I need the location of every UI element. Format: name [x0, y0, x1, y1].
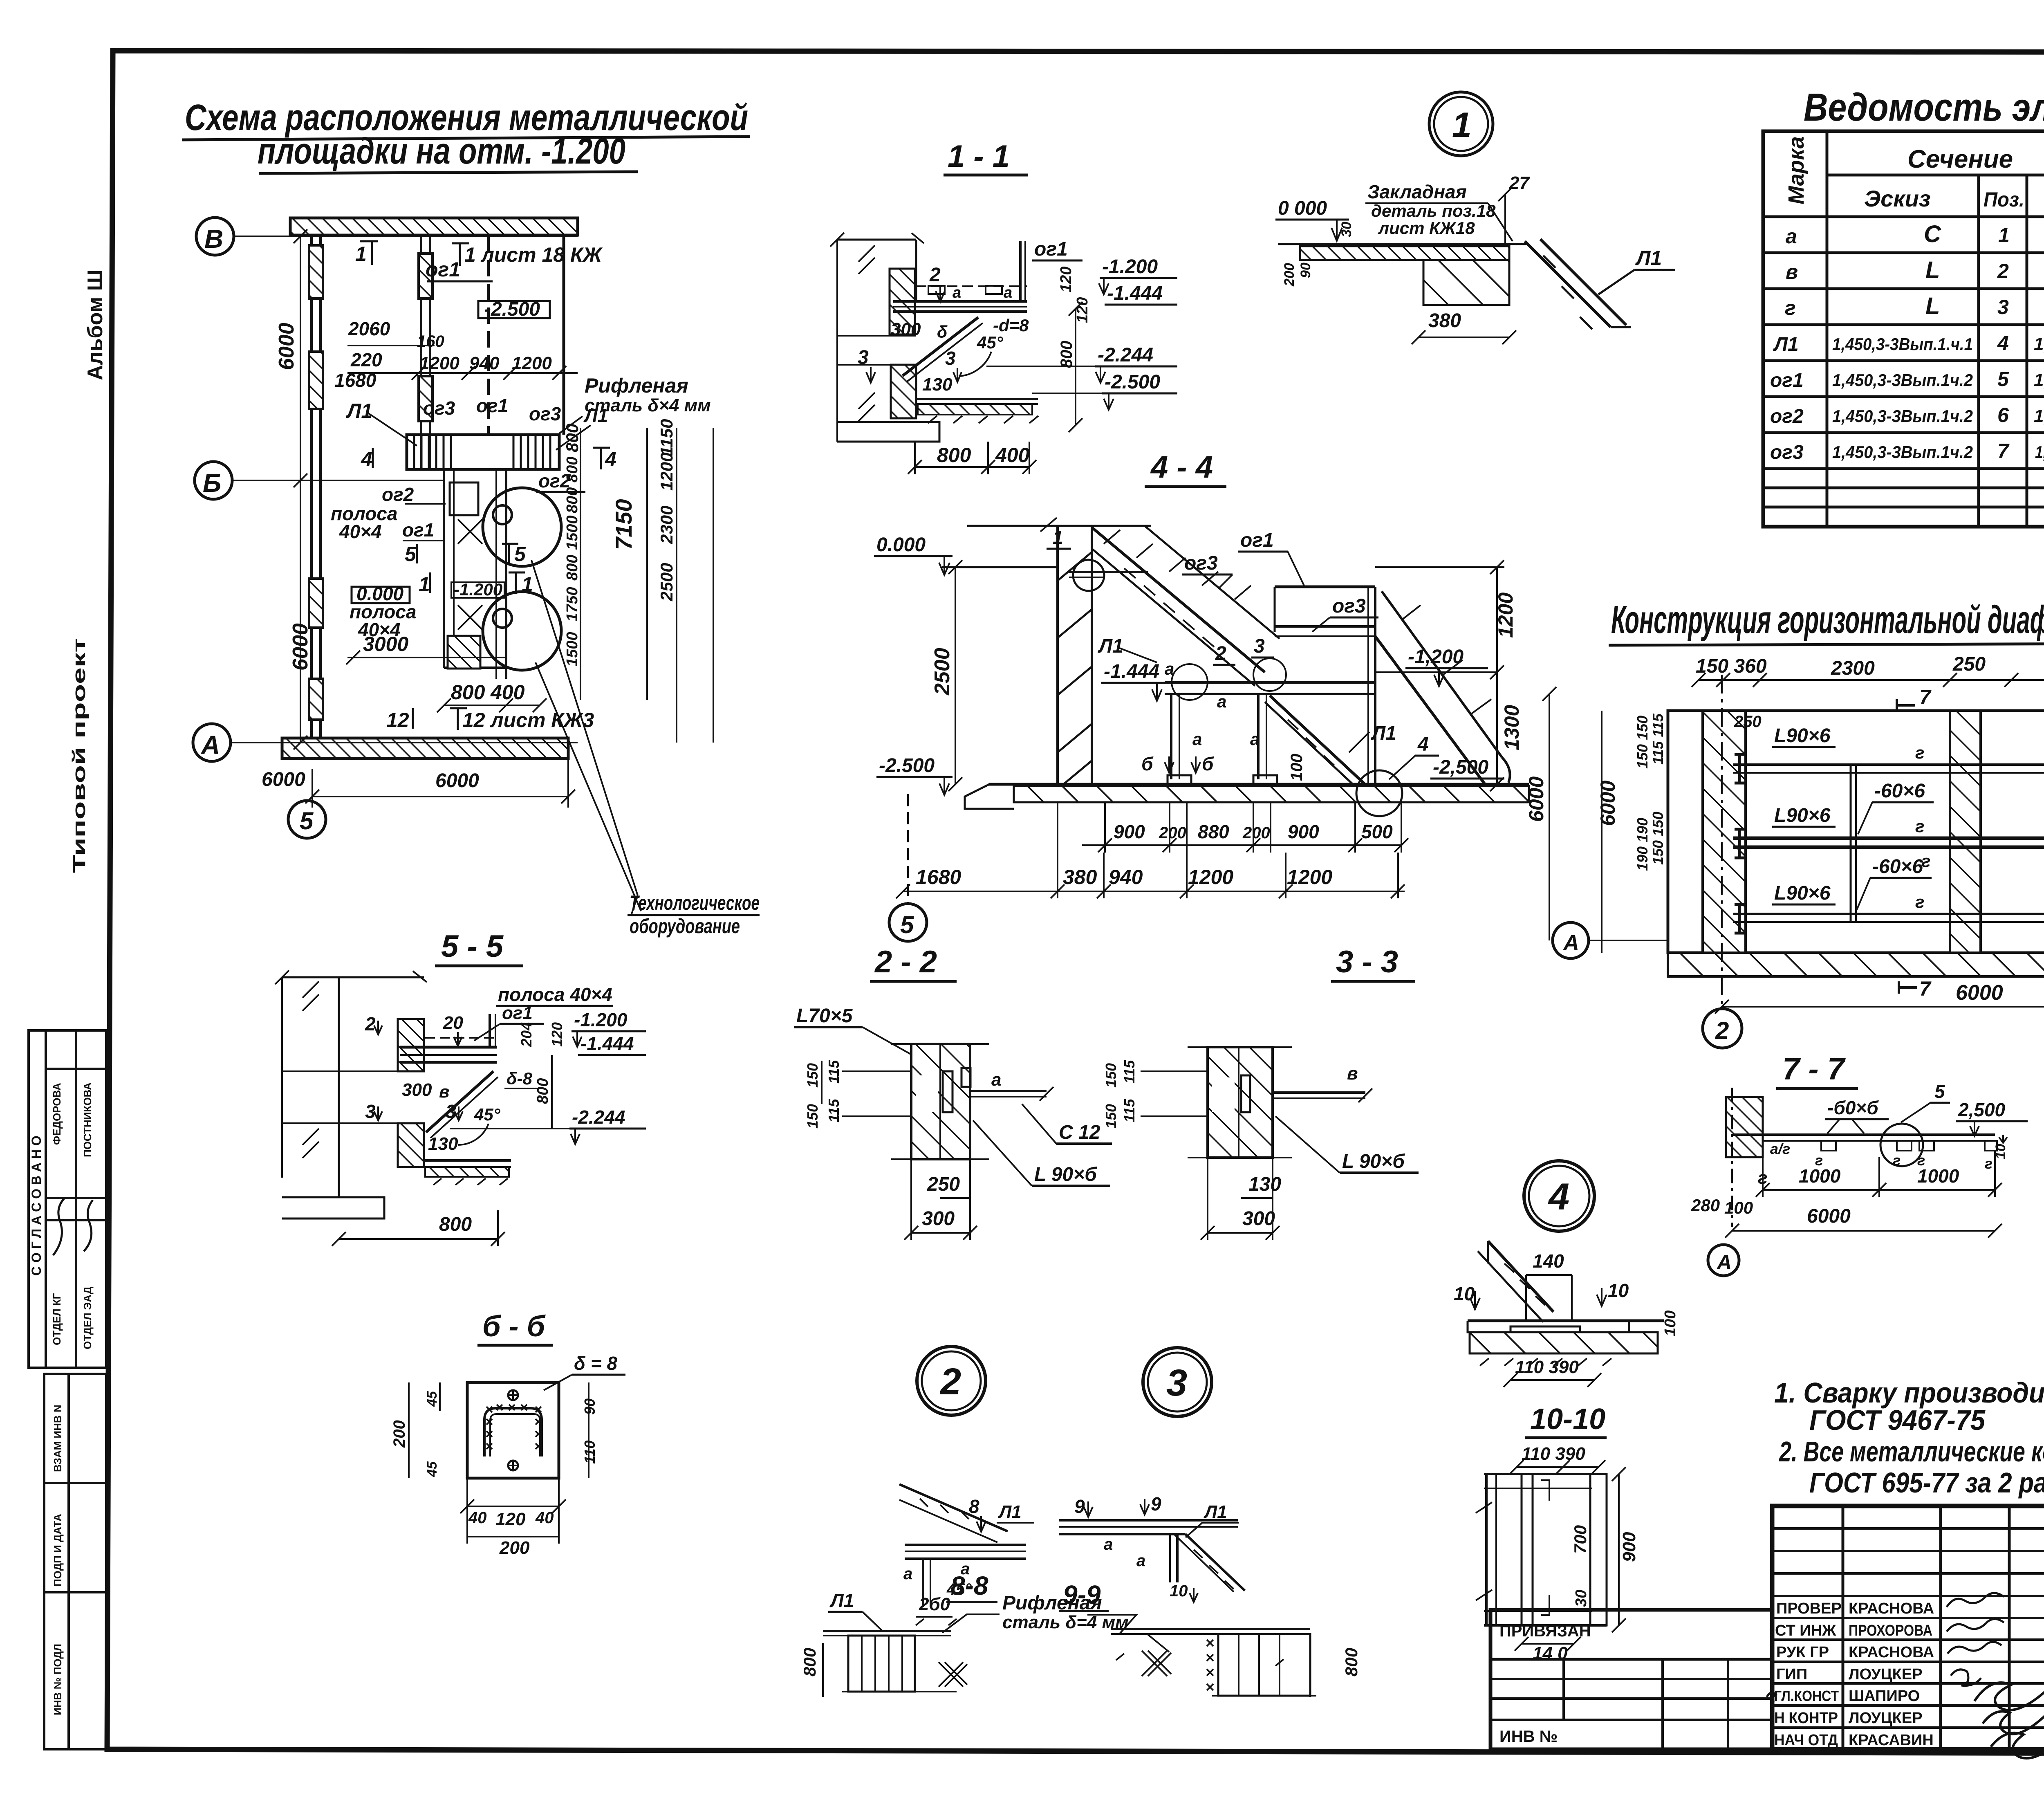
svg-text:КРАСНОВА: КРАСНОВА [1849, 1600, 1934, 1617]
plan bottom dim 6000 with axis 5 [262, 760, 575, 838]
svg-text:Ведомость элементов: Ведомость элементов [1804, 85, 2044, 129]
svg-text:120: 120 [1074, 297, 1091, 323]
svg-text:г: г [1915, 817, 1924, 836]
circled 1 [1429, 92, 1493, 156]
svg-text:45: 45 [424, 1461, 440, 1477]
svg-text:2: 2 [365, 1013, 376, 1035]
svg-text:-1.444: -1.444 [580, 1033, 634, 1054]
svg-text:6000: 6000 [262, 769, 305, 790]
svg-text:10: 10 [1608, 1280, 1629, 1301]
svg-text:3: 3 [858, 347, 869, 368]
svg-text:в: в [1786, 260, 1798, 283]
axis 5 circle [889, 904, 927, 941]
svg-text:δ-8: δ-8 [507, 1069, 533, 1088]
svg-text:280: 280 [1691, 1196, 1720, 1215]
svg-text:в: в [1347, 1064, 1358, 1084]
svg-text:ог1: ог1 [502, 1003, 533, 1023]
plan annotation texts [331, 241, 711, 732]
svg-text:940: 940 [469, 353, 500, 373]
svg-text:-2.500: -2.500 [484, 298, 540, 320]
svg-text:А: А [1562, 931, 1579, 955]
svg-text:4: 4 [1548, 1176, 1569, 1218]
row a [1786, 220, 2044, 253]
svg-text:-1,200: -1,200 [1408, 646, 1464, 668]
svg-text:8: 8 [969, 1496, 979, 1517]
svg-text:100: 100 [1288, 754, 1306, 781]
end post [489, 1014, 491, 1047]
axis circle B [196, 218, 234, 255]
svg-text:2500: 2500 [657, 563, 676, 601]
left dim line [281, 977, 283, 1178]
svg-text:12: 12 [386, 709, 409, 732]
left dim line [836, 240, 838, 442]
svg-text:а: а [1250, 729, 1260, 749]
svg-text:С 12: С 12 [1059, 1122, 1100, 1143]
svg-text:200: 200 [1159, 824, 1186, 842]
svg-text:200: 200 [1282, 263, 1297, 287]
svg-text:6000: 6000 [289, 623, 312, 671]
svg-text:1150: 1150 [657, 419, 676, 456]
column [1208, 1047, 1273, 1158]
svg-text:1: 1 [522, 573, 533, 596]
svg-text:100: 100 [1662, 1311, 1679, 1336]
svg-text:200: 200 [1242, 824, 1270, 842]
embedded channel [943, 1071, 953, 1112]
svg-text:12 лист КЖ3: 12 лист КЖ3 [462, 709, 594, 732]
signatures squiggles [1767, 1593, 2044, 1758]
svg-text:δ: δ [937, 322, 948, 341]
svg-text:6: 6 [1997, 404, 2009, 426]
svg-text:90: 90 [1298, 263, 1313, 278]
svg-text:в: в [439, 1082, 449, 1101]
svg-text:5: 5 [1934, 1081, 1945, 1102]
svg-text:1680: 1680 [334, 370, 377, 391]
svg-text:120: 120 [1058, 267, 1075, 292]
svg-text:940: 940 [1109, 866, 1143, 889]
wall left [1726, 1097, 1763, 1157]
svg-text:5: 5 [514, 543, 526, 566]
plate & floor [1468, 1320, 1664, 1322]
svg-text:г: г [1985, 1155, 1992, 1172]
svg-text:1: 1 [355, 242, 367, 265]
approval stamp (rotated) [29, 1030, 106, 1368]
svg-text:5 - 5: 5 - 5 [441, 929, 504, 964]
plan right dim chains [563, 419, 713, 743]
svg-text:1750: 1750 [564, 587, 581, 622]
svg-text:115: 115 [1121, 1099, 1138, 1122]
header texts [1784, 136, 2044, 218]
svg-text:4: 4 [361, 448, 372, 471]
svg-text:РУК ГР: РУК ГР [1776, 1644, 1829, 1661]
svg-text:а: а [1104, 1535, 1113, 1553]
svg-text:4: 4 [1417, 734, 1429, 755]
inner wall segment [420, 235, 422, 470]
row lines [1763, 251, 2044, 254]
left dim 2500 [955, 567, 956, 784]
svg-text:3: 3 [945, 348, 956, 369]
svg-text:30: 30 [1573, 1590, 1590, 1607]
svg-text:лист КЖ18: лист КЖ18 [1378, 218, 1475, 238]
foundation step [282, 1197, 384, 1219]
svg-text:Н КОНТР: Н КОНТР [1774, 1710, 1838, 1727]
svg-text:Конструкция горизонтальной д: Конструкция горизонтальной диафрагмы в т… [1611, 598, 2044, 642]
svg-text:L90×6: L90×6 [1774, 805, 1831, 826]
svg-text:4 - 4: 4 - 4 [1150, 450, 1213, 485]
plan top dims 2060/160/220/1200/940/1200/1680 [334, 318, 578, 391]
svg-text:полоса 40×4: полоса 40×4 [498, 984, 612, 1005]
svg-text:-2.500: -2.500 [879, 755, 935, 776]
svg-text:ЛОУЦКЕР: ЛОУЦКЕР [1849, 1666, 1923, 1683]
top wall hatched band [290, 218, 578, 235]
svg-text:45°: 45° [977, 333, 1004, 352]
stripe box right [1218, 1634, 1310, 1696]
svg-text:115: 115 [825, 1099, 842, 1122]
svg-text:L90×6: L90×6 [1774, 882, 1831, 904]
column [911, 1044, 970, 1159]
svg-text:а: а [953, 284, 961, 301]
svg-text:Л1: Л1 [346, 399, 372, 422]
svg-text:-б0×б: -б0×б [1827, 1097, 1879, 1118]
svg-text:1200: 1200 [512, 353, 552, 373]
plate [467, 1382, 559, 1478]
svg-text:30: 30 [1339, 222, 1354, 237]
svg-text:Л1: Л1 [998, 1502, 1022, 1522]
6000 vertical dim near diaphragm [1549, 694, 1550, 940]
MAIN TITLE [182, 97, 750, 173]
svg-text:б - б: б - б [482, 1310, 546, 1343]
svg-text:б: б [1202, 753, 1214, 774]
svg-text:160: 160 [417, 332, 444, 350]
svg-text:220: 220 [350, 349, 382, 370]
svg-text:300: 300 [891, 319, 921, 339]
svg-text:Поз.: Поз. [1983, 188, 2024, 211]
bottom wall hatched band [282, 738, 568, 759]
svg-text:НАЧ ОТД: НАЧ ОТД [1774, 1732, 1838, 1749]
svg-text:Сечение: Сечение [1907, 145, 2013, 173]
svg-text:ПРИВЯЗАН: ПРИВЯЗАН [1499, 1622, 1591, 1640]
svg-text:150: 150 [804, 1063, 821, 1088]
axis circles 2 and 3 [1703, 1009, 1742, 1048]
svg-text:3: 3 [1997, 296, 2009, 319]
svg-text:9: 9 [1074, 1496, 1085, 1517]
svg-text:ог1: ог1 [1034, 238, 1068, 260]
svg-text:-2,500: -2,500 [1433, 756, 1488, 778]
svg-text:а: а [991, 1070, 1001, 1090]
svg-text:800: 800 [937, 444, 971, 467]
svg-text:380: 380 [1063, 866, 1097, 889]
svg-text:1500: 1500 [564, 632, 581, 667]
svg-text:ог3: ог3 [1332, 595, 1366, 617]
svg-text:150: 150 [804, 1104, 821, 1129]
svg-text:115: 115 [1121, 1060, 1138, 1084]
svg-text:δ = 8: δ = 8 [574, 1353, 618, 1374]
svg-text:Типовой проект: Типовой проект [69, 638, 89, 873]
supporting wall [1423, 260, 1509, 305]
svg-text:0.000: 0.000 [876, 534, 926, 556]
svg-text:деталь поз.18: деталь поз.18 [1371, 201, 1496, 220]
svg-text:2: 2 [1215, 643, 1226, 664]
svg-text:ог1: ог1 [426, 258, 460, 281]
svg-text:150: 150 [1103, 1104, 1119, 1129]
svg-text:2: 2 [1997, 260, 2009, 283]
embedded plate hatched [1300, 246, 1509, 260]
svg-text:250: 250 [1734, 713, 1762, 731]
svg-text:1: 1 [1452, 105, 1472, 145]
svg-text:2500: 2500 [930, 648, 954, 696]
left dims [821, 1061, 823, 1104]
stripe box [848, 1636, 915, 1692]
top dim row [1692, 653, 2044, 687]
svg-text:Рифленая: Рифленая [1002, 1592, 1102, 1614]
svg-text:115: 115 [825, 1060, 842, 1084]
svg-text:800: 800 [564, 555, 581, 581]
svg-text:КРАСАВИН: КРАСАВИН [1849, 1732, 1934, 1749]
foundation step [837, 422, 939, 442]
svg-text:2300: 2300 [1831, 658, 1875, 679]
svg-text:27: 27 [1509, 173, 1530, 193]
svg-text:6000: 6000 [1596, 781, 1619, 826]
svg-text:г: г [1915, 743, 1924, 762]
beam end plates [1735, 754, 2044, 933]
svg-text:10-10: 10-10 [1530, 1403, 1605, 1436]
svg-text:Л1: Л1 [583, 405, 608, 426]
top slab line [1278, 243, 1528, 245]
svg-text:L90×6: L90×6 [1774, 725, 1831, 747]
svg-text:1200: 1200 [1287, 866, 1332, 889]
main rectangle [1668, 711, 2044, 953]
svg-text:190 190: 190 190 [1634, 818, 1651, 871]
svg-text:г: г [1915, 892, 1924, 911]
svg-text:1,450,3-3,1: 1,450,3-3,1 [2034, 334, 2044, 354]
svg-text:90: 90 [581, 1398, 598, 1415]
svg-text:130: 130 [1248, 1174, 1281, 1195]
svg-text:2 - 2: 2 - 2 [874, 945, 937, 979]
privyazan block [1490, 1610, 1772, 1749]
svg-text:-1.200: -1.200 [1102, 256, 1158, 278]
svg-text:1680: 1680 [916, 866, 961, 889]
svg-text:а: а [903, 1565, 912, 1583]
svg-text:7 - 7: 7 - 7 [1782, 1052, 1846, 1086]
signature table columns [1842, 1506, 1845, 1749]
svg-text:ог2: ог2 [1770, 406, 1804, 427]
svg-text:7150: 7150 [611, 499, 637, 550]
svg-text:800: 800 [800, 1648, 819, 1676]
svg-text:7: 7 [1919, 977, 1932, 1000]
svg-text:1,450,3-3Вып.1ч.2: 1,450,3-3Вып.1ч.2 [1832, 370, 1973, 390]
svg-text:300: 300 [922, 1208, 955, 1230]
plan right edge vertical [563, 235, 565, 435]
wall with hatch blocks [915, 240, 917, 301]
svg-text:1,450,3-3Вып.1ч.2: 1,450,3-3Вып.1ч.2 [1832, 442, 1973, 462]
svg-text:2,500: 2,500 [1958, 1099, 2006, 1120]
svg-text:СТ ИНЖ: СТ ИНЖ [1775, 1622, 1836, 1639]
svg-text:А: А [1716, 1251, 1732, 1274]
svg-text:а: а [1192, 729, 1202, 749]
svg-text:ог3: ог3 [1184, 552, 1218, 574]
svg-text:А: А [200, 730, 220, 760]
svg-text:а/г: а/г [1770, 1140, 1790, 1157]
svg-text:Эскиз: Эскиз [1864, 186, 1931, 211]
row og2 [1770, 404, 2044, 427]
svg-text:6000: 6000 [1525, 776, 1548, 822]
wall column hatch blocks on left wall [309, 245, 323, 298]
svg-text:ГЛ.КОНСТ: ГЛ.КОНСТ [1774, 1688, 1839, 1704]
diagonal brace [903, 317, 978, 376]
svg-text:250: 250 [927, 1174, 960, 1195]
svg-text:L 90×б: L 90×б [1034, 1164, 1097, 1185]
svg-text:Л1: Л1 [829, 1590, 854, 1611]
svg-text:ПРОВЕР: ПРОВЕР [1776, 1600, 1842, 1617]
svg-text:Л1: Л1 [1635, 247, 1662, 269]
top wall cut line [967, 525, 1151, 527]
svg-text:150 150: 150 150 [1634, 716, 1651, 769]
axis A circle left [1553, 922, 1589, 958]
post [922, 1559, 924, 1607]
circled 3 [1143, 1348, 1212, 1416]
deck at -1.444 [893, 300, 1027, 303]
g letters [1915, 743, 1930, 911]
svg-text:ГОСТ 9467-75: ГОСТ 9467-75 [1809, 1404, 1986, 1436]
svg-text:900: 900 [1288, 821, 1319, 842]
bottom dim row 2 [896, 802, 1405, 898]
svg-text:ФЕДОРОВА: ФЕДОРОВА [51, 1083, 63, 1145]
svg-text:Альбом Ш: Альбом Ш [83, 269, 107, 380]
svg-text:900: 900 [1619, 1532, 1639, 1562]
detail under circled 4 : stair base [1454, 1241, 1679, 1387]
svg-text:6000: 6000 [1807, 1205, 1851, 1227]
svg-text:140: 140 [1533, 1250, 1564, 1272]
row g [1785, 293, 2044, 319]
svg-text:1: 1 [1998, 224, 2010, 247]
x marks left of box [1207, 1640, 1213, 1690]
svg-text:ГОСТ 695-77 за 2 раза п: ГОСТ 695-77 за 2 раза по грунту ГФ- 020. [1809, 1467, 2044, 1499]
svg-text:L70×5: L70×5 [796, 1005, 853, 1027]
svg-text:г: г [1785, 296, 1796, 319]
svg-text:ог3: ог3 [1770, 442, 1804, 463]
svg-text:1000: 1000 [1917, 1165, 1959, 1187]
channel inside [484, 1408, 542, 1456]
left dims [1601, 711, 1602, 953]
right dims 1200/1300 [1496, 567, 1498, 784]
svg-text:3 - 3: 3 - 3 [1336, 945, 1398, 979]
svg-text:204: 204 [518, 1022, 535, 1047]
svg-text:3: 3 [1166, 1362, 1187, 1404]
svg-text:Закладная: Закладная [1367, 181, 1467, 202]
svg-text:300: 300 [1242, 1208, 1275, 1230]
plate [1733, 1133, 1995, 1136]
ladder stringer diagonal [1525, 241, 1611, 327]
svg-text:-60×6: -60×6 [1872, 856, 1923, 877]
svg-text:1,4503-3 1.4. 1.1.1.0-06;ОГп М: 1,4503-3 1.4. 1.1.1.0-06;ОГп М ЛХ45- 10,… [2035, 442, 2044, 462]
outer box [1763, 131, 2044, 527]
svg-text:1200: 1200 [1494, 592, 1517, 638]
svg-text:120: 120 [549, 1022, 565, 1047]
dims [408, 1382, 410, 1478]
rod [970, 1090, 1047, 1092]
svg-text:4: 4 [605, 448, 616, 471]
axis A circle [1708, 1245, 1739, 1276]
svg-text:ог1: ог1 [1770, 370, 1804, 391]
row og1 [1770, 368, 2044, 392]
svg-text:45: 45 [424, 1391, 440, 1407]
top line [282, 976, 424, 978]
svg-text:150 150: 150 150 [1650, 812, 1666, 865]
svg-text:ИНВ №: ИНВ № [1499, 1728, 1558, 1746]
svg-text:1200: 1200 [419, 353, 459, 373]
deck -1.444 [1165, 681, 1375, 684]
crosshatch mark [939, 1662, 967, 1687]
row L1 [1773, 332, 2044, 355]
svg-text:40×4: 40×4 [339, 521, 382, 542]
left wall strip [1703, 711, 1746, 953]
svg-text:Л1: Л1 [1773, 334, 1799, 355]
svg-text:а: а [1786, 225, 1797, 248]
svg-text:-2.244: -2.244 [1098, 344, 1153, 366]
svg-text:400: 400 [490, 681, 525, 704]
svg-text:6000: 6000 [1956, 981, 2003, 1005]
labels L90x6 [1774, 725, 1831, 904]
deck [905, 1544, 1026, 1546]
svg-text:-1.200: -1.200 [574, 1009, 628, 1030]
left margin album text [69, 269, 107, 873]
svg-text:С О Г Л А С О В А Н О: С О Г Л А С О В А Н О [29, 1136, 44, 1276]
svg-text:7: 7 [1919, 686, 1932, 709]
svg-text:110: 110 [581, 1441, 598, 1464]
svg-text:110 390: 110 390 [1522, 1444, 1585, 1464]
svg-text:1,450,3-3Вып.1.ч.1: 1,450,3-3Вып.1.ч.1 [1832, 334, 1973, 354]
svg-text:1 - 1: 1 - 1 [948, 139, 1010, 174]
svg-text:В: В [204, 224, 223, 254]
post [1176, 1534, 1179, 1582]
svg-text:5: 5 [405, 543, 417, 566]
svg-text:0 000: 0 000 [1278, 197, 1327, 219]
svg-text:880: 880 [1198, 821, 1229, 842]
og1 post [1019, 241, 1022, 301]
flight 2 with rail [1375, 636, 1486, 785]
svg-text:3000: 3000 [363, 633, 408, 655]
svg-text:ог2: ог2 [382, 484, 414, 505]
axis lines [233, 236, 578, 237]
svg-text:-1.200: -1.200 [454, 580, 502, 599]
upper right platform box [1275, 586, 1375, 588]
svg-text:7: 7 [1997, 440, 2010, 462]
svg-text:4: 4 [1997, 332, 2009, 355]
svg-text:2300: 2300 [657, 506, 676, 544]
dashed axis vertical [487, 236, 490, 435]
svg-text:Л1: Л1 [1371, 723, 1396, 744]
diagonal down-right [1186, 1534, 1245, 1591]
svg-text:500: 500 [1361, 821, 1393, 842]
svg-text:1,450,3-3Вып.1ч.2: 1,450,3-3Вып.1ч.2 [1832, 406, 1973, 426]
svg-text:L: L [1925, 293, 1940, 319]
svg-text:9: 9 [1151, 1493, 1161, 1515]
deck at -1.444 [400, 1046, 497, 1049]
crosshatch [1142, 1651, 1171, 1676]
svg-text:120: 120 [495, 1509, 526, 1529]
svg-text:-1.444: -1.444 [1107, 283, 1163, 304]
header split lines [1827, 174, 2044, 177]
svg-text:40: 40 [535, 1509, 554, 1527]
svg-text:1,450,3-3,1 5: 1,450,3-3,1 5 [2034, 370, 2044, 390]
svg-text:ог1: ог1 [402, 519, 434, 541]
svg-text:ИНВ № ПОДЛ: ИНВ № ПОДЛ [52, 1644, 64, 1715]
svg-text:40: 40 [468, 1509, 487, 1527]
svg-text:а: а [1217, 692, 1226, 711]
row b [1786, 257, 2044, 283]
svg-text:Л1: Л1 [1098, 635, 1123, 657]
svg-text:1,4503-3,1 4: 1,4503-3,1 4 [2034, 406, 2044, 426]
svg-text:ОТДЕЛ ЭАД: ОТДЕЛ ЭАД [81, 1286, 94, 1349]
